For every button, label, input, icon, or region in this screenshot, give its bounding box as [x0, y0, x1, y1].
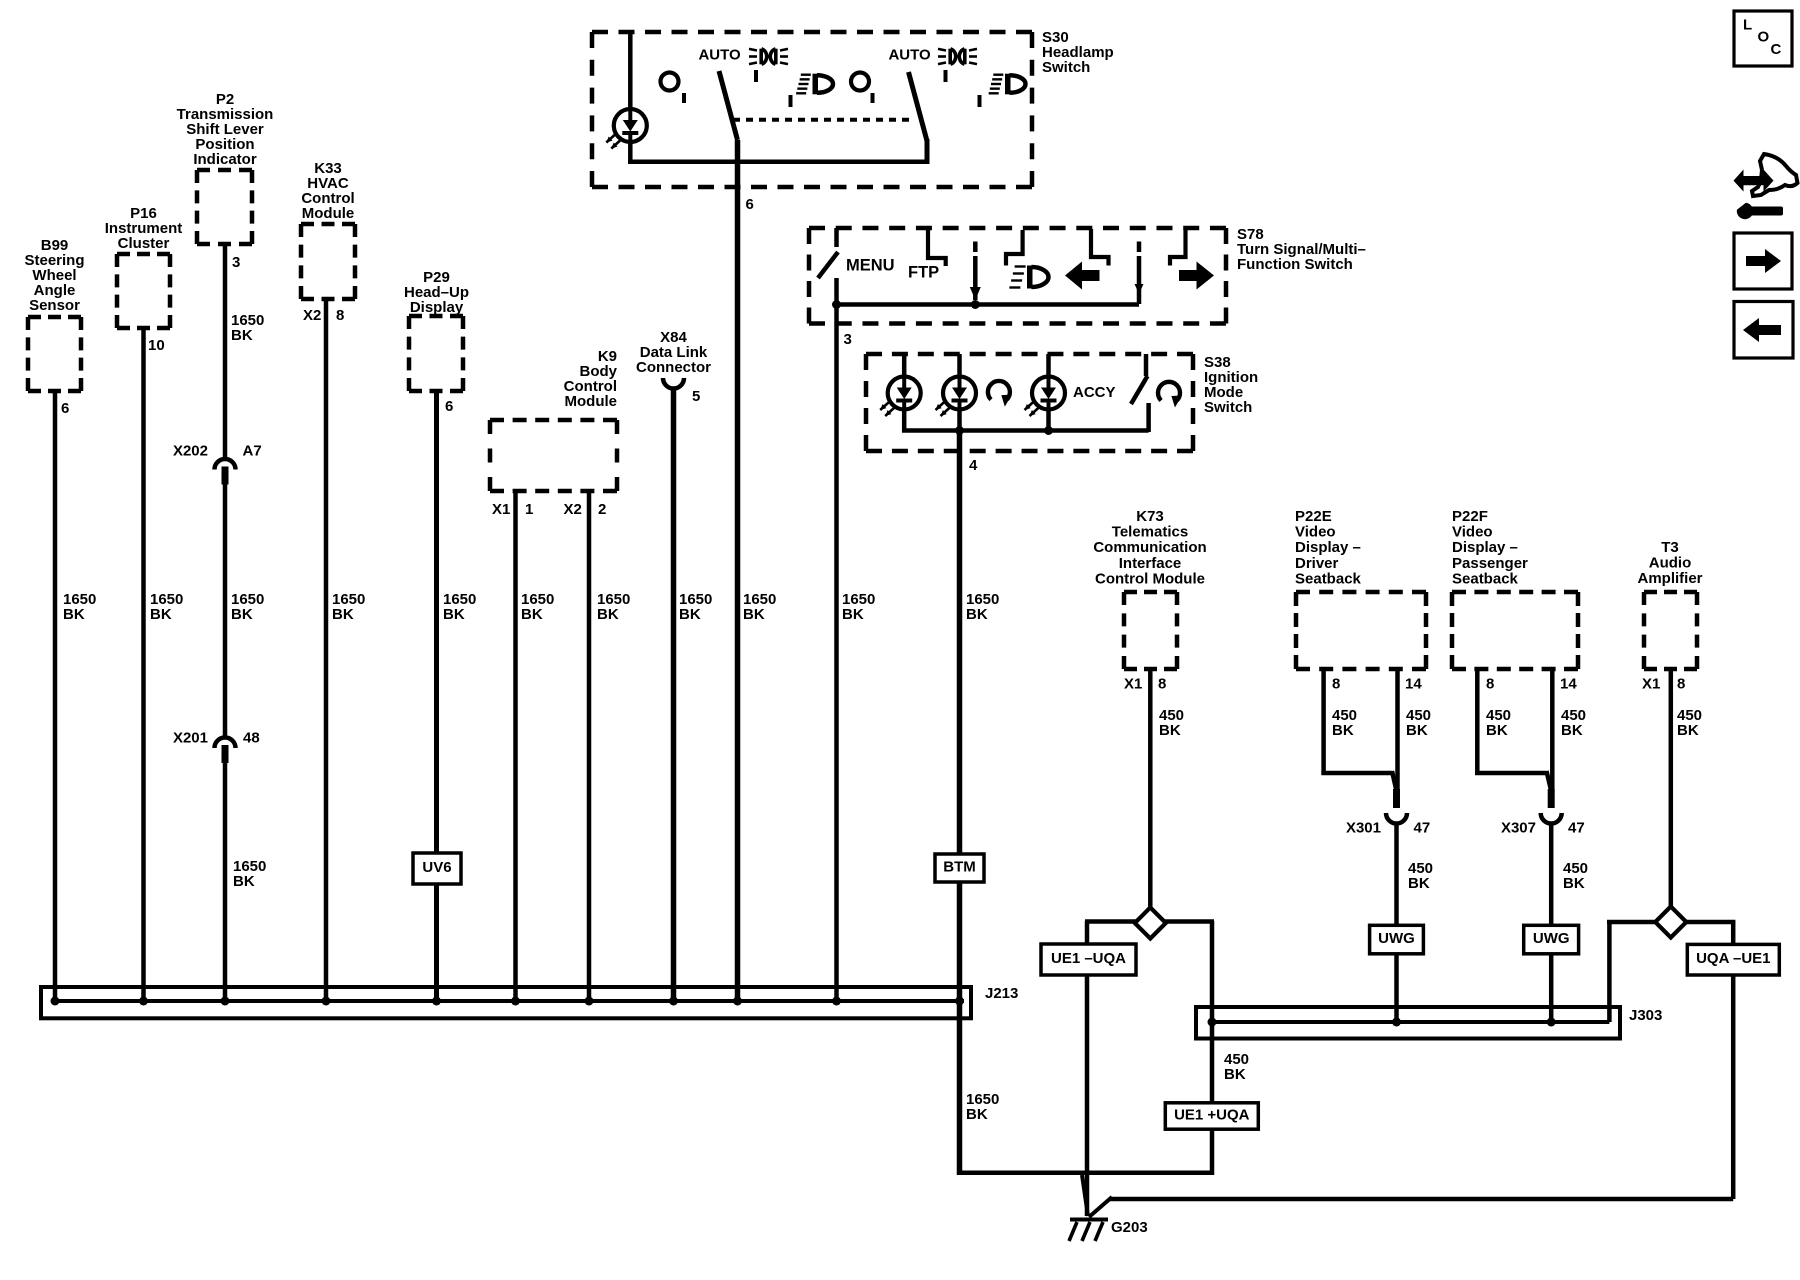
svg-text:8: 8	[1158, 675, 1166, 692]
svg-text:BK: BK	[842, 606, 864, 623]
svg-text:UWG: UWG	[1378, 930, 1415, 947]
svg-text:Seatback: Seatback	[1452, 571, 1519, 588]
svg-text:8: 8	[1332, 675, 1340, 692]
svg-text:BK: BK	[1224, 1066, 1246, 1083]
svg-text:X301: X301	[1346, 819, 1381, 836]
svg-text:BK: BK	[231, 606, 253, 623]
svg-text:X307: X307	[1501, 819, 1536, 836]
svg-text:Module: Module	[302, 205, 355, 222]
svg-text:UE1 –UQA: UE1 –UQA	[1051, 950, 1126, 967]
svg-text:Cluster: Cluster	[118, 235, 170, 252]
svg-text:14: 14	[1405, 675, 1422, 692]
svg-text:X1: X1	[492, 501, 510, 518]
svg-text:BK: BK	[679, 606, 701, 623]
svg-text:BK: BK	[521, 606, 543, 623]
svg-text:K73: K73	[1136, 508, 1164, 525]
svg-text:2: 2	[598, 501, 606, 518]
svg-text:6: 6	[61, 400, 69, 417]
svg-text:BK: BK	[1486, 722, 1508, 739]
svg-text:UWG: UWG	[1533, 930, 1570, 947]
svg-text:Control Module: Control Module	[1095, 571, 1205, 588]
svg-text:BK: BK	[1408, 875, 1430, 892]
svg-text:Telematics: Telematics	[1112, 524, 1188, 541]
svg-text:8: 8	[336, 307, 344, 324]
svg-text:X1: X1	[1124, 675, 1142, 692]
svg-text:G203: G203	[1111, 1219, 1148, 1236]
svg-text:Switch: Switch	[1042, 59, 1090, 76]
svg-text:Function Switch: Function Switch	[1237, 256, 1353, 273]
svg-text:Audio: Audio	[1649, 555, 1692, 572]
svg-text:Passenger: Passenger	[1452, 555, 1528, 572]
svg-text:Driver: Driver	[1295, 555, 1339, 572]
svg-text:L: L	[1743, 16, 1752, 33]
svg-text:Display: Display	[410, 299, 464, 316]
svg-text:Amplifier: Amplifier	[1637, 570, 1702, 587]
svg-text:J213: J213	[985, 985, 1018, 1002]
svg-text:ACCY: ACCY	[1073, 384, 1116, 401]
svg-text:6: 6	[746, 196, 754, 213]
svg-text:A7: A7	[243, 442, 262, 459]
svg-text:AUTO: AUTO	[888, 46, 931, 63]
svg-text:Switch: Switch	[1204, 399, 1252, 416]
svg-text:BK: BK	[1406, 722, 1428, 739]
svg-text:8: 8	[1677, 675, 1685, 692]
svg-text:Communication: Communication	[1093, 539, 1206, 556]
svg-text:BK: BK	[743, 606, 765, 623]
svg-text:Seatback: Seatback	[1295, 571, 1362, 588]
svg-text:FTP: FTP	[908, 263, 939, 281]
svg-text:1: 1	[525, 501, 533, 518]
svg-text:47: 47	[1414, 819, 1431, 836]
svg-text:X2: X2	[303, 307, 321, 324]
svg-text:Module: Module	[565, 393, 618, 410]
svg-text:Video: Video	[1295, 524, 1336, 541]
svg-text:J303: J303	[1629, 1007, 1662, 1024]
svg-text:BK: BK	[231, 327, 253, 344]
svg-text:MENU: MENU	[846, 256, 895, 274]
svg-text:47: 47	[1568, 819, 1585, 836]
svg-text:Video: Video	[1452, 524, 1493, 541]
svg-text:X1: X1	[1642, 675, 1660, 692]
svg-text:T3: T3	[1661, 539, 1679, 556]
svg-text:P22F: P22F	[1452, 508, 1488, 525]
svg-text:BK: BK	[966, 606, 988, 623]
svg-text:X2: X2	[564, 501, 582, 518]
svg-text:14: 14	[1560, 675, 1577, 692]
svg-text:UQA –UE1: UQA –UE1	[1696, 950, 1770, 967]
svg-text:6: 6	[445, 398, 453, 415]
svg-text:UV6: UV6	[422, 859, 451, 876]
svg-text:BK: BK	[443, 606, 465, 623]
svg-text:BK: BK	[1159, 722, 1181, 739]
svg-text:Display –: Display –	[1452, 539, 1518, 556]
svg-text:C: C	[1771, 41, 1782, 58]
svg-text:BK: BK	[597, 606, 619, 623]
svg-text:BK: BK	[233, 873, 255, 890]
svg-text:4: 4	[969, 457, 978, 474]
svg-text:BK: BK	[1677, 722, 1699, 739]
svg-text:Connector: Connector	[636, 359, 711, 376]
svg-text:BK: BK	[332, 606, 354, 623]
svg-text:BK: BK	[150, 606, 172, 623]
svg-text:Interface: Interface	[1119, 555, 1182, 572]
svg-text:8: 8	[1486, 675, 1494, 692]
svg-text:10: 10	[148, 337, 165, 354]
svg-text:5: 5	[692, 388, 700, 405]
svg-text:3: 3	[232, 254, 240, 271]
svg-text:48: 48	[243, 729, 260, 746]
svg-text:Display –: Display –	[1295, 539, 1361, 556]
svg-text:BK: BK	[966, 1106, 988, 1123]
svg-text:BK: BK	[63, 606, 85, 623]
svg-text:Indicator: Indicator	[193, 151, 257, 168]
svg-text:AUTO: AUTO	[698, 46, 741, 63]
svg-text:BK: BK	[1563, 875, 1585, 892]
svg-text:O: O	[1758, 28, 1770, 45]
svg-text:P22E: P22E	[1295, 508, 1332, 525]
svg-text:BTM: BTM	[943, 858, 976, 875]
svg-text:BK: BK	[1561, 722, 1583, 739]
svg-text:Sensor: Sensor	[29, 297, 80, 314]
svg-text:3: 3	[844, 331, 852, 348]
svg-text:X201: X201	[173, 729, 208, 746]
svg-text:UE1 +UQA: UE1 +UQA	[1174, 1106, 1250, 1123]
svg-text:X202: X202	[173, 442, 208, 459]
svg-text:BK: BK	[1332, 722, 1354, 739]
